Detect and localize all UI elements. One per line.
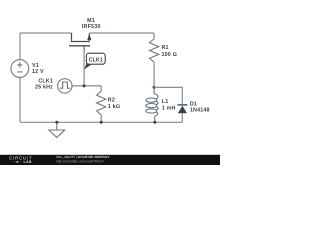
resistor R1 — [150, 39, 159, 62]
node gate junction — [83, 84, 86, 87]
wire gate to clock net — [83, 50, 85, 86]
wire clock to R2 — [72, 86, 101, 91]
svg-text:http://circuitlab.com/cmct/76f: http://circuitlab.com/cmct/76fnc7/ — [56, 159, 104, 163]
svg-text:L1: L1 — [162, 99, 169, 105]
svg-text:1 kΩ: 1 kΩ — [108, 104, 120, 110]
wire R1 top lead — [153, 33, 155, 39]
flag CLK1 — [84, 53, 105, 69]
wire bottom rail — [20, 121, 182, 123]
node R1 junction — [153, 86, 156, 89]
ground — [49, 122, 65, 137]
svg-text:R2: R2 — [108, 98, 115, 104]
wire top rail right segment — [89, 32, 154, 34]
wire left rail lower — [19, 77, 21, 122]
inductor L1 — [146, 87, 158, 122]
svg-text:CLK1: CLK1 — [89, 57, 103, 63]
wire left rail upper — [19, 33, 21, 60]
footer bar — [0, 155, 220, 165]
svg-text:IRF530: IRF530 — [82, 24, 101, 30]
clock source CLK1 — [58, 79, 72, 93]
resistor R2 — [97, 91, 106, 115]
wire R2 bottom — [100, 115, 102, 123]
node R2 bottom junction — [100, 121, 103, 124]
svg-text:M1: M1 — [87, 18, 95, 24]
svg-text:LAB: LAB — [24, 160, 32, 164]
svg-text:12 V: 12 V — [32, 69, 44, 75]
svg-text:1 mH: 1 mH — [162, 106, 176, 112]
wire R1 bottom lead — [153, 62, 155, 87]
wire junction to D1 — [154, 87, 182, 104]
svg-text:25 kHz: 25 kHz — [35, 85, 53, 91]
wire top rail left segment — [20, 32, 72, 34]
svg-text:∼■∼: ∼■∼ — [13, 160, 22, 164]
voltage source V1 — [11, 60, 29, 78]
node L1 bottom junction — [153, 121, 156, 124]
diode D1 — [177, 105, 187, 122]
node ground junction — [55, 121, 58, 124]
svg-text:R1: R1 — [162, 45, 169, 51]
svg-text:100 Ω: 100 Ω — [162, 52, 177, 58]
svg-text:1N4148: 1N4148 — [190, 107, 210, 113]
transistor M1 — [69, 33, 91, 52]
